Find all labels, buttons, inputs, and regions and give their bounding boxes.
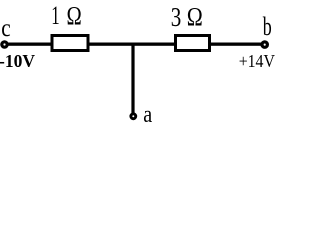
svg-text:Ω: Ω [67,2,82,31]
wire R1 to node [90,43,175,46]
wire c to R1 [7,43,52,46]
terminal a [131,114,136,119]
svg-text:b: b [263,12,272,41]
resistor R1 [52,36,88,51]
wire node to a [131,43,134,113]
svg-text:+14V: +14V [239,51,276,71]
terminal b [262,42,267,47]
resistor R2 [176,36,210,51]
svg-text:-10V: -10V [0,51,35,71]
svg-text:a: a [143,100,152,125]
svg-text:3: 3 [171,2,182,32]
svg-text:Ω: Ω [187,4,203,32]
svg-text:c: c [1,14,10,42]
terminal c [2,42,7,47]
svg-text:1: 1 [51,0,59,30]
wire R2 to b [211,43,262,46]
